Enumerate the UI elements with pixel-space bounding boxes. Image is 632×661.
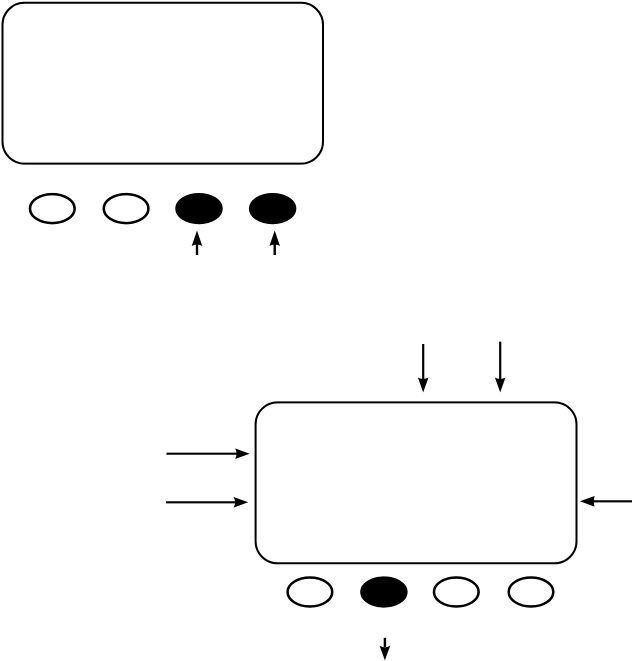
- arrow right 2 (into left side of box 2, lower): [166, 497, 248, 508]
- ellipse row1-2 (white): [104, 194, 149, 223]
- arrow up 1 (below black ellipse row1-3): [192, 231, 203, 256]
- arrow left 1 (into right side of box 2, from canvas edge): [580, 496, 632, 507]
- ellipse row2-1 (white): [288, 578, 333, 607]
- ellipse row2-3 (white): [434, 578, 479, 607]
- ellipse row2-4 (white): [509, 578, 554, 607]
- box 1 (top-left rounded rectangle): [3, 3, 324, 164]
- arrow down 2 (into top of box 2): [495, 342, 506, 393]
- box 2 (bottom rounded rectangle): [256, 402, 577, 563]
- arrow up 2 (below black ellipse row1-4): [269, 231, 280, 256]
- arrow down 3 (below black ellipse row2-2): [380, 638, 391, 661]
- ellipse row1-4 (black): [250, 194, 295, 223]
- arrow down 1 (into top of box 2): [418, 344, 429, 392]
- arrow right 1 (into left side of box 2, upper): [167, 448, 250, 459]
- ellipse row1-1 (white): [30, 194, 75, 223]
- ellipse row2-2 (black): [361, 577, 406, 606]
- ellipse row1-3 (black): [176, 194, 221, 223]
